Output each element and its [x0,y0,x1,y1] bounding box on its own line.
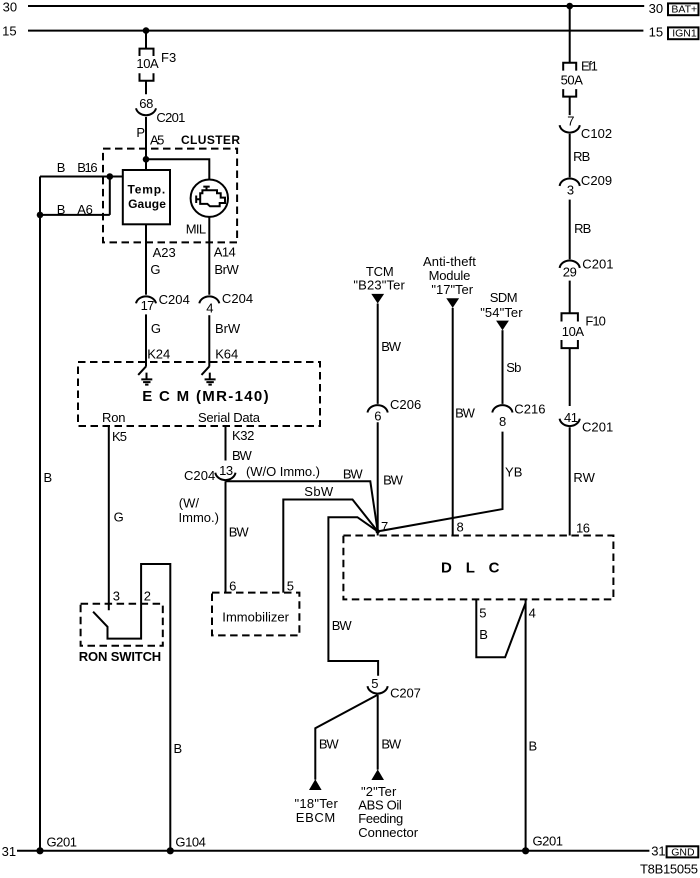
svg-text:6: 6 [229,579,236,594]
svg-text:G201: G201 [533,834,564,849]
svg-text:BW: BW [383,473,404,488]
svg-text:2: 2 [144,589,151,604]
svg-text:8: 8 [457,520,464,535]
svg-text:C216: C216 [514,401,545,416]
svg-text:G104: G104 [175,834,206,849]
svg-text:BW: BW [229,524,250,539]
svg-text:C204: C204 [222,291,253,306]
svg-text:6: 6 [374,409,381,424]
svg-text:BW: BW [232,448,253,463]
svg-text:C209: C209 [581,173,612,188]
svg-text:"B23"Ter: "B23"Ter [353,278,405,293]
svg-text:BW: BW [455,406,476,421]
svg-text:G: G [151,321,161,336]
svg-text:B: B [57,160,66,175]
svg-text:15: 15 [649,25,663,40]
svg-text:Temp.: Temp. [128,183,166,197]
svg-text:50A: 50A [561,72,584,87]
svg-text:B: B [44,470,53,485]
svg-text:K64: K64 [215,347,238,362]
svg-text:T8B15055: T8B15055 [640,862,698,877]
svg-text:EBCM: EBCM [296,810,335,825]
svg-text:7: 7 [567,113,574,128]
svg-text:C206: C206 [390,397,421,412]
svg-text:30: 30 [649,1,663,16]
svg-text:BrW: BrW [215,321,241,336]
svg-text:RON SWITCH: RON SWITCH [79,649,161,664]
svg-text:BAT+: BAT+ [671,4,697,16]
svg-text:B: B [174,741,183,756]
svg-text:BrW: BrW [214,262,239,277]
svg-text:A6: A6 [77,202,93,217]
svg-text:C204: C204 [184,468,215,483]
svg-text:K32: K32 [232,428,254,443]
svg-text:C201: C201 [582,256,613,271]
svg-text:G201: G201 [47,834,78,849]
svg-text:BW: BW [319,736,340,751]
svg-text:F10: F10 [585,314,606,329]
svg-text:4: 4 [206,301,213,316]
svg-text:Immobilizer: Immobilizer [222,610,289,625]
svg-text:C207: C207 [390,686,421,701]
svg-text:C204: C204 [159,292,190,307]
svg-text:SbW: SbW [304,484,334,499]
svg-text:17: 17 [141,298,155,313]
svg-text:RB: RB [574,221,591,236]
svg-text:P: P [136,125,145,140]
svg-text:RB: RB [573,149,590,164]
svg-text:B: B [479,627,488,642]
svg-text:"18"Ter: "18"Ter [295,796,339,811]
svg-text:3: 3 [113,589,120,604]
svg-text:10A: 10A [136,56,159,71]
svg-text:Serial Data: Serial Data [198,410,261,425]
svg-text:29: 29 [563,264,577,279]
svg-text:13: 13 [219,463,233,478]
svg-text:CLUSTER: CLUSTER [181,133,240,147]
svg-text:5: 5 [287,579,294,594]
svg-text:BW: BW [332,618,353,633]
svg-text:Ef1: Ef1 [581,58,598,73]
svg-text:SDM: SDM [490,290,518,305]
svg-text:A5: A5 [150,132,164,147]
svg-text:E C M (MR-140): E C M (MR-140) [142,388,268,405]
svg-text:GND: GND [671,846,695,858]
svg-text:MIL: MIL [186,222,206,237]
svg-text:B16: B16 [77,160,97,175]
svg-text:Gauge: Gauge [128,197,166,211]
svg-text:68: 68 [139,96,153,111]
svg-text:A14: A14 [214,245,236,260]
svg-text:5: 5 [479,605,486,620]
svg-text:RW: RW [573,470,595,485]
svg-text:(W/: (W/ [179,495,200,510]
svg-text:G: G [114,510,124,525]
svg-text:B: B [529,738,538,753]
svg-text:8: 8 [499,414,506,429]
svg-text:10A: 10A [562,324,585,339]
svg-text:C201: C201 [582,420,613,435]
svg-text:7: 7 [381,519,388,534]
svg-text:B: B [57,202,66,217]
svg-text:BW: BW [343,466,364,481]
svg-text:C102: C102 [581,126,612,141]
svg-text:3: 3 [567,182,574,197]
svg-text:Connector: Connector [358,825,418,840]
svg-text:"17"Ter: "17"Ter [431,282,473,297]
svg-text:K24: K24 [147,347,170,362]
svg-text:IGN1: IGN1 [672,28,697,40]
svg-text:F3: F3 [161,50,176,65]
svg-text:(W/O Immo.): (W/O Immo.) [246,464,320,479]
svg-text:16: 16 [576,521,590,536]
svg-text:D L C: D L C [441,560,500,577]
svg-text:"54"Ter: "54"Ter [480,305,523,320]
svg-text:30: 30 [3,0,17,15]
svg-text:31: 31 [651,844,665,859]
svg-text:Anti-theft: Anti-theft [423,254,476,269]
svg-text:G: G [150,262,160,277]
svg-text:5: 5 [371,676,378,691]
svg-text:Module: Module [429,268,471,283]
svg-text:TCM: TCM [366,264,394,279]
svg-text:31: 31 [2,844,16,859]
svg-text:BW: BW [381,339,402,354]
svg-text:BW: BW [381,736,402,751]
svg-text:15: 15 [2,24,16,39]
svg-text:A23: A23 [153,245,176,260]
svg-text:Sb: Sb [506,360,521,375]
svg-text:Feeding: Feeding [358,811,403,826]
svg-text:K5: K5 [112,429,127,444]
svg-text:Ron: Ron [102,410,126,425]
svg-text:Immo.): Immo.) [179,510,219,525]
svg-text:YB: YB [505,464,522,479]
svg-text:41: 41 [564,410,578,425]
svg-text:4: 4 [529,605,536,620]
svg-text:C201: C201 [156,110,185,125]
